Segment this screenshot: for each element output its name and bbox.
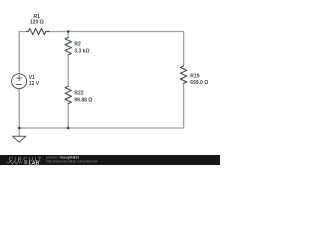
- plus sign: [16, 75, 22, 81]
- wire: V1 bottom to ground node: [18, 89, 20, 128]
- svg-text:R19: R19: [190, 74, 199, 80]
- resistor R22: [65, 86, 92, 103]
- svg-text:3.3 kΩ: 3.3 kΩ: [74, 48, 89, 54]
- svg-text:V1: V1: [29, 75, 35, 81]
- ground: [13, 128, 26, 142]
- node: junction of R2 branch with top wire: [67, 30, 70, 33]
- svg-text:http://www.circuitlab.com/c/6y: http://www.circuitlab.com/c/6yvxrw: [46, 160, 98, 164]
- svg-text:12 V: 12 V: [29, 81, 40, 87]
- svg-text:R2: R2: [74, 42, 81, 48]
- minus sign: [16, 84, 22, 86]
- voltage source V1: [12, 74, 40, 89]
- CircuitLab logo text LAB: [25, 161, 28, 164]
- wire: between R2 and R22: [67, 55, 69, 87]
- svg-text:99.88 Ω: 99.88 Ω: [74, 98, 92, 104]
- resistor R19: [180, 66, 208, 86]
- svg-text:LAB: LAB: [29, 161, 40, 166]
- node: ground junction bottom-left: [18, 127, 21, 130]
- wire: top-left corner down to V1 top: [19, 32, 25, 75]
- svg-text:659.0 Ω: 659.0 Ω: [190, 80, 208, 86]
- wire: below R22 to bottom node: [67, 104, 69, 129]
- CircuitLab logo resistor zigzag: [7, 161, 23, 164]
- wire: stub from top node down to R2: [67, 32, 69, 38]
- resistor R2: [65, 37, 90, 54]
- node: junction of R22 branch with bottom wire: [67, 127, 70, 130]
- svg-text:120 Ω: 120 Ω: [30, 20, 44, 26]
- footer watermark bar: [0, 155, 220, 167]
- svg-text:R22: R22: [74, 91, 83, 97]
- wire: R19 bottom to bottom-right corner, bottom horizontal to ground node: [19, 83, 183, 128]
- resistor R1: [26, 14, 49, 35]
- wire: top horizontal from R1 to top-right corner, down to R19 top: [49, 32, 184, 67]
